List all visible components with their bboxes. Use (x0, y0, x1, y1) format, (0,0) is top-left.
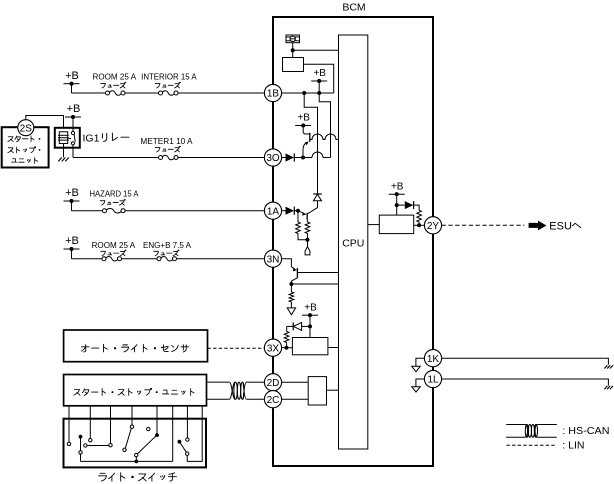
wire CPU to K1 (368, 224, 380, 226)
switch contact c9 (135, 453, 138, 461)
wire R10 to 1B wire end (304, 64, 334, 93)
svg-text:3O: 3O (266, 153, 280, 164)
wire +B to fuses to 3N (72, 249, 265, 259)
svg-text:+B: +B (313, 68, 326, 79)
svg-text:2Y: 2Y (427, 221, 440, 232)
power +B terminal (2Y relay) (389, 181, 405, 196)
power +B terminal (ROOM/ENG+B feed) (64, 235, 80, 251)
label ESU-he (549, 221, 580, 233)
resistor R5 (414, 205, 422, 225)
ground (1K) (604, 365, 613, 368)
wire +B node into block (309, 326, 311, 337)
switch contact c2b (79, 451, 82, 454)
fuse HAZARD 15 A (103, 208, 126, 213)
legend LIN dashed (507, 444, 557, 446)
connector 1A (264, 202, 281, 219)
connector 3O (264, 149, 281, 166)
fuse ROOM 25 A (106, 91, 126, 96)
svg-text:+B: +B (67, 103, 81, 115)
wire +B down to node (396, 196, 398, 215)
svg-text:+B: +B (65, 187, 79, 199)
resistor R1 (1A node) (296, 211, 308, 240)
label start-stop unit wide (74, 388, 194, 395)
connector 3N (264, 250, 281, 267)
wire sw6 (172, 406, 174, 461)
auto light sensor box (64, 330, 208, 362)
switch contact c1 (67, 442, 70, 445)
node dot 2Y-B (395, 203, 399, 207)
fuse METER1 10 A (159, 155, 179, 160)
start-stop unit box (wide) (64, 375, 207, 406)
label fuse katakana 4 (100, 199, 125, 205)
svg-text:METER1 10 A: METER1 10 A (140, 137, 193, 146)
connector 3O wire and diode D1 (282, 153, 303, 161)
wire Q3 collector to CPU (297, 272, 338, 274)
wire c5a to c3 (87, 445, 109, 447)
node dot 3X-B (308, 324, 312, 328)
node dot 3X (284, 346, 288, 350)
wire HS-CAN pair 2D (207, 381, 230, 383)
block A1 (3X comparator) (292, 338, 328, 355)
switch contact c5a (84, 444, 87, 447)
connector 3X (264, 339, 281, 356)
wire twist to 2D (247, 381, 265, 383)
resistor R2 (Q2 emitter) (305, 220, 310, 240)
power +B terminal (1B pullup) (311, 68, 327, 83)
relay coil L1 (58, 132, 69, 144)
terminal arrow 1L (412, 387, 421, 392)
BCM module box (273, 17, 433, 466)
svg-text:3N: 3N (267, 254, 280, 265)
label fuse katakana 5 (101, 250, 126, 256)
diode D2 (vertical) (313, 194, 321, 201)
node dot R1R2 (306, 238, 310, 242)
terminal arrow (3N sink) (287, 308, 295, 315)
svg-text:2C: 2C (267, 395, 280, 406)
fuse INTERIOR 15 A (159, 91, 179, 96)
arrow to ESU (529, 221, 547, 231)
wire relay to METER1 fuse to 3O (73, 157, 264, 159)
label fuse katakana 6 (154, 250, 179, 256)
svg-text:+B: +B (65, 235, 79, 247)
svg-text:+B: +B (297, 113, 310, 124)
label auto light sensor (82, 344, 189, 352)
switch contact c4 (130, 425, 133, 428)
wire 1B-a jog down (304, 93, 317, 194)
wire symbol to node (292, 43, 294, 58)
wire switch common bottom (81, 454, 173, 461)
resistor R4 (3X) (284, 326, 289, 347)
transistor Q1 (303, 128, 310, 150)
terminal arrow (1A sink) (305, 240, 310, 255)
wire 2D to block (282, 381, 309, 383)
wire sw7 (186, 406, 188, 438)
svg-text:2D: 2D (267, 378, 280, 389)
resistor R3 (289, 284, 294, 308)
wire 2C to block (282, 398, 309, 400)
label fuse katakana 1 (101, 82, 126, 88)
connector 1L (424, 370, 441, 387)
wire sw4 (131, 406, 133, 425)
wire +B to 1B wire (318, 83, 320, 93)
label IG1 relay (83, 132, 129, 144)
power +B terminal (ROOM/INTERIOR feed) (64, 70, 80, 86)
power +B terminal (3X) (302, 302, 318, 317)
svg-text:: HS-CAN: : HS-CAN (562, 425, 609, 437)
wire HS-CAN pair 2C (207, 398, 230, 400)
power +B terminal (HAZARD feed) (64, 187, 80, 203)
connector 1A diode D3 (282, 207, 298, 215)
legend label HS-CAN (562, 425, 609, 437)
wire relay contact out (72, 145, 74, 158)
label HAZARD 15 A (90, 190, 140, 199)
wire 3O emitter link (302, 150, 304, 158)
wire 1B inside BCM (282, 92, 334, 94)
svg-text:ROOM 25 A: ROOM 25 A (92, 241, 136, 250)
switch lever L1 (125, 428, 131, 448)
wire LIN to ESU (dashed) (442, 224, 525, 226)
wire Q1 base line with crossovers to CPU (310, 134, 339, 139)
connector 2S (18, 120, 34, 136)
wire 1B-b jog down (319, 93, 330, 158)
wire 1L to ground right (442, 379, 609, 386)
svg-text:IG1: IG1 (83, 132, 100, 144)
switch contact c8 (147, 427, 150, 430)
label CPU (342, 238, 364, 250)
svg-text:1B: 1B (267, 89, 280, 100)
block A2 (serial interface) (308, 377, 326, 405)
wire +B into relay (72, 119, 74, 131)
connector 1K (424, 350, 441, 367)
legend label LIN (562, 440, 584, 452)
svg-text:CPU: CPU (342, 238, 364, 250)
wire block A1 to CPU (328, 347, 339, 349)
node dot 1A (296, 209, 300, 213)
wire 3X to block (282, 347, 293, 349)
node dot switch common (135, 460, 139, 464)
wire twist to 2C (247, 398, 265, 400)
switch pole p2 (79, 435, 83, 451)
wire node to CPU (y=50) (293, 49, 339, 51)
connector 2D (264, 374, 281, 391)
wire sw8 (187, 406, 202, 461)
wire D2 to Q2 collector (307, 201, 317, 214)
wire sw5 (156, 406, 158, 435)
wire 2S to relay coil (26, 116, 64, 129)
wire 3O crossover to corner (303, 152, 331, 158)
svg-text:1L: 1L (427, 375, 439, 386)
switch contact c3 (109, 444, 112, 447)
switch contact c7 (186, 438, 189, 441)
svg-text:ENG+B 7.5 A: ENG+B 7.5 A (143, 241, 192, 250)
wire auto light sensor to 3X (dashed) (208, 347, 265, 349)
resistor block R10 (283, 58, 304, 72)
connector 2Y (424, 217, 441, 234)
label start-stop unit line3 (12, 157, 38, 163)
label start-stop unit line2 (8, 147, 40, 153)
label METER1 10 A (140, 137, 193, 146)
wire +B to diode node (309, 317, 311, 326)
power +B terminal (IG1 relay) (65, 103, 81, 119)
fuse ROOM 25 A (2) (102, 256, 122, 261)
switch contact c10 (186, 452, 189, 455)
label BCM (342, 2, 365, 14)
diode D4 (287, 322, 310, 330)
ground (1L) (604, 386, 613, 389)
CPU block U1 (339, 35, 368, 449)
label INTERIOR 15 A (141, 72, 197, 81)
label light switch (99, 473, 177, 481)
node dot 1B-b (317, 91, 321, 95)
indicator symbol (top of BCM) (286, 35, 300, 43)
twisted pair symbol (229, 382, 246, 399)
wire relay coil to ground (63, 144, 65, 158)
switch pole p5 (155, 433, 159, 437)
node dot 1B-a (302, 91, 306, 95)
svg-text:HAZARD 15 A: HAZARD 15 A (90, 190, 140, 199)
wire sw1 (68, 406, 70, 442)
wire +B to fuse to 1A (72, 201, 265, 211)
node dot 3O (301, 156, 305, 160)
wire 1K to ground right (442, 358, 609, 365)
label start-stop unit line1 (8, 136, 40, 142)
svg-text:2S: 2S (20, 123, 33, 134)
svg-text:INTERIOR 15 A: INTERIOR 15 A (141, 72, 197, 81)
svg-text:BCM: BCM (342, 2, 365, 14)
relay block K1 (2Y output) (379, 215, 413, 234)
connector 2C (264, 391, 281, 408)
wire +B to fuses to 1B (72, 84, 265, 93)
label ROOM 25 A (2) (92, 241, 136, 250)
relay contact switch (69, 131, 76, 145)
wire K1 to 2Y (414, 224, 425, 226)
diode D5 (397, 201, 414, 209)
wire 1K branch to arrow (416, 358, 425, 366)
fuse ENG+B 7.5 A (157, 256, 177, 261)
transistor Q3 (291, 267, 297, 278)
node dot 3N emitter (289, 282, 293, 286)
svg-text:1A: 1A (267, 206, 280, 217)
transistor Q2 (298, 211, 307, 220)
light switch box (64, 419, 207, 468)
svg-text:+B: +B (65, 70, 79, 82)
wire Q3 emitter (291, 278, 297, 284)
svg-text:ESU: ESU (549, 221, 572, 233)
terminal arrow 1K (412, 366, 421, 371)
switch contact c2 (89, 439, 92, 442)
svg-text:3X: 3X (267, 343, 280, 354)
wire 1L branch to arrow (416, 379, 425, 387)
svg-text:+B: +B (304, 302, 317, 313)
wire sw3 (110, 406, 112, 444)
connector 3N wire (282, 259, 292, 267)
power +B terminal (Q1) (295, 113, 311, 128)
start-stop unit box (left) (2, 127, 49, 167)
wire sw2 (89, 406, 91, 439)
switch pole p10 (178, 440, 182, 444)
svg-text:1K: 1K (427, 354, 440, 365)
switch contact c6 (123, 448, 126, 451)
node dot lamp (291, 48, 295, 52)
label fuse katakana 2 (155, 82, 180, 88)
wire block A2 to CPU (327, 389, 339, 391)
label ROOM 25 A (93, 72, 137, 81)
ground (relay coil) (58, 158, 68, 162)
switch lever L2 (137, 436, 155, 454)
wire 3N node to CPU (291, 283, 338, 285)
svg-text:+B: +B (391, 181, 404, 192)
legend HS-CAN symbol (506, 425, 557, 438)
label fuse katakana 3 (155, 146, 180, 152)
switch lever L3 (180, 443, 186, 452)
relay IG1 box (55, 128, 80, 148)
connector 1B (264, 84, 281, 101)
svg-text:: LIN: : LIN (562, 440, 584, 452)
label ENG+B 7.5 A (143, 241, 192, 250)
node dot 2Y (417, 223, 421, 227)
svg-text:ROOM 25 A: ROOM 25 A (93, 72, 137, 81)
